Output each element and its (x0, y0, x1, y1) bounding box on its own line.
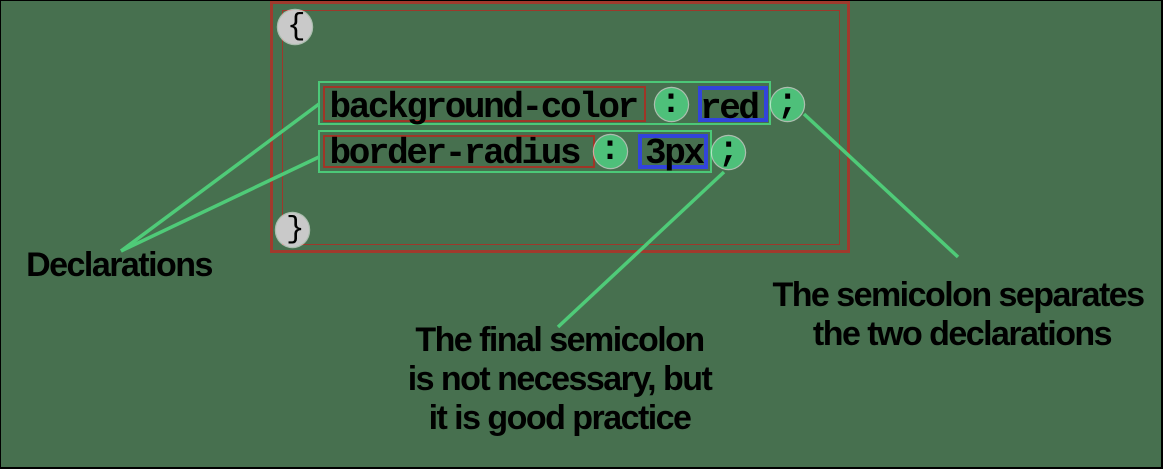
semicolon circle 1 (771, 88, 804, 121)
property red box 2 (323, 135, 595, 168)
label: Declarations (25, 246, 213, 285)
line to declaration box 1 (121, 104, 319, 251)
gray circle { (278, 10, 312, 44)
blue value box 2 (638, 134, 708, 169)
outer red rule box (270, 1, 851, 253)
property red box 1 (323, 86, 646, 122)
line to declaration box 2 (121, 157, 319, 251)
right paragraph (768, 276, 1148, 354)
declaration green box 2 (318, 130, 712, 173)
left paragraph (380, 321, 740, 438)
code text 2 (330, 136, 580, 172)
blue value box 1 (698, 86, 768, 122)
line from semicolon 1 to right paragraph (804, 114, 958, 257)
colon circle 2 (594, 135, 627, 168)
code text 1 (330, 90, 637, 126)
colon circle 1 (655, 88, 688, 121)
gray circle } (276, 213, 310, 247)
inner thin red box (282, 10, 840, 245)
line from semicolon 2 to left paragraph (558, 172, 724, 327)
declaration green box 1 (318, 81, 771, 125)
semicolon circle 2 (712, 136, 745, 169)
